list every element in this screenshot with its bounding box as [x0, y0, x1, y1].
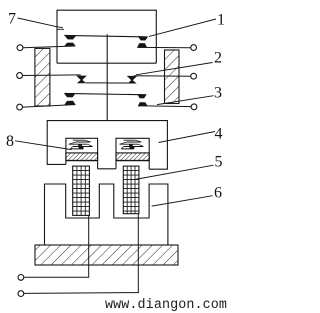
row3 moving contact rail [65, 93, 147, 94]
svg-text:4: 4 [215, 126, 223, 143]
moving contact carrier frame [57, 10, 156, 63]
terminal R2 [191, 73, 197, 79]
row2 right fixed wire [134, 75, 191, 77]
bridge bottom bar [57, 62, 156, 64]
row3 right fixed contact [138, 103, 147, 106]
right window hatch bar [116, 153, 149, 161]
row3 right fixed wire [138, 105, 191, 108]
leader line 7 [18, 18, 64, 29]
row3 left moving contact [65, 94, 75, 98]
row1 left moving contact [65, 36, 75, 39]
right coil lead wire [24, 214, 139, 294]
row1 moving contact rail [64, 35, 147, 37]
row2 right lower wire [107, 82, 128, 84]
left window of moving core [66, 138, 98, 160]
right window of moving core [116, 138, 149, 160]
right window lower walls [116, 160, 149, 169]
leader line 2 [136, 63, 213, 75]
left coil winding [73, 166, 90, 215]
left window hatch bar [66, 153, 98, 161]
row3 left fixed wire [23, 105, 75, 108]
terminal L2 [17, 73, 23, 79]
leader line 5 [136, 165, 214, 179]
svg-text:2: 2 [214, 50, 222, 67]
row2 left lower wire [86, 82, 108, 84]
svg-text:www.diangon.com: www.diangon.com [105, 298, 227, 313]
moving core block outline [47, 121, 167, 170]
row2 right contact pair [128, 76, 137, 80]
row3 left fixed contact [65, 101, 75, 105]
leader line 6 [152, 196, 213, 206]
mounting base hatched [35, 245, 178, 265]
leader line 8 [15, 141, 72, 150]
leader line 3 [157, 96, 214, 105]
row1 right fixed contact [138, 44, 147, 48]
right insulating bar hatched [165, 50, 180, 104]
left insulating bar hatched [35, 48, 50, 106]
leader line 4 [159, 132, 216, 143]
coil terminal B [18, 291, 24, 297]
svg-text:6: 6 [214, 185, 222, 202]
row1 left fixed wire [23, 46, 75, 48]
row1 left fixed contact [65, 43, 75, 46]
center stem wire [106, 34, 108, 120]
svg-text:3: 3 [214, 85, 222, 102]
svg-text:5: 5 [215, 154, 223, 171]
terminal L3 [17, 104, 23, 110]
row1 right fixed wire [138, 46, 191, 48]
row2 left fixed wire [23, 74, 81, 77]
left coil lead wire [24, 215, 89, 277]
svg-text:8: 8 [6, 133, 14, 150]
right coil winding [123, 166, 139, 214]
svg-text:1: 1 [217, 12, 225, 29]
terminal R1 [191, 45, 197, 51]
terminal L1 [17, 45, 23, 51]
coil terminal A [18, 275, 24, 281]
left buffer spring [69, 140, 93, 149]
leader line 1 [149, 19, 216, 36]
right buffer spring [120, 140, 144, 149]
row1 right moving contact [139, 37, 148, 41]
left window lower walls [66, 160, 98, 168]
row3 right moving contact [138, 95, 146, 99]
svg-text:7: 7 [8, 11, 16, 28]
static core outline [45, 184, 168, 245]
row2 left contact pair [77, 76, 86, 80]
terminal R3 [191, 104, 197, 110]
